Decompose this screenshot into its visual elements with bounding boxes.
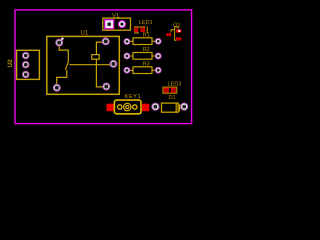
- Q1 pad 3 (emitter): [176, 37, 181, 40]
- U1 pad 3: [110, 60, 117, 67]
- R1 body: [133, 38, 152, 45]
- LED1 silk: [134, 27, 147, 34]
- svg-text:D1: D1: [169, 95, 176, 101]
- transistor Q1: [166, 22, 181, 40]
- KEY1 right contact circle: [133, 105, 137, 109]
- LED2 pad 1: [164, 88, 169, 93]
- LED1 pad 2: [141, 28, 145, 32]
- via marker on Q1 pad 2 (white dot): [178, 30, 180, 32]
- R1 leads: [130, 40, 155, 42]
- resistor R2: [124, 47, 161, 59]
- via marker (white dot): [61, 38, 63, 40]
- R3 pad 1: [124, 67, 130, 73]
- V1 pad 2 (round): [118, 21, 125, 28]
- U2 pad 2: [22, 61, 29, 68]
- R2 body: [133, 53, 152, 60]
- resistor R3: [124, 61, 161, 73]
- KEY1 pad 1: [107, 104, 114, 112]
- U1 pad 2: [102, 38, 109, 45]
- R1 pad 1: [124, 39, 130, 45]
- Q1 silk: [171, 27, 178, 41]
- D1 cathode band: [176, 103, 179, 112]
- D1 pad 1: [152, 103, 159, 110]
- V1 pad 1 (square): [105, 20, 114, 29]
- U2 pad 3: [22, 71, 29, 78]
- silk: switch arm diagonal: [65, 62, 68, 70]
- U1 pad 4: [53, 84, 60, 91]
- Q1 pad 2 (collector): [176, 29, 181, 32]
- U1 pad 5: [103, 83, 110, 90]
- KEY1 button circles: [124, 103, 131, 110]
- U1 outline: [47, 36, 120, 94]
- crystal V1: [103, 13, 131, 30]
- R2 pad 1: [124, 53, 130, 59]
- Q1 pad 1 (base): [166, 33, 171, 36]
- silk: path to bottom-left pad: [57, 70, 67, 84]
- R2 leads: [130, 55, 155, 57]
- silk: pole lead from pad 1: [59, 46, 68, 63]
- LED1: [134, 20, 153, 33]
- svg-text:U2: U2: [7, 59, 14, 68]
- R3 leads: [130, 69, 155, 71]
- U2 pad 1: [22, 52, 29, 59]
- KEY1 pad 2: [142, 104, 149, 112]
- silk: contact line to middle pad: [69, 64, 110, 66]
- U2 outline: [17, 50, 40, 79]
- svg-text:LED1: LED1: [139, 20, 153, 26]
- svg-text:U1: U1: [81, 31, 89, 37]
- R2 pad 2: [155, 53, 161, 59]
- LED1 pad 1: [134, 28, 138, 32]
- svg-text:V1: V1: [112, 13, 120, 19]
- board outline (keepout border): [15, 10, 192, 124]
- connector U2: [7, 50, 39, 79]
- R3 pad 2: [155, 67, 161, 73]
- LED2: [163, 82, 182, 94]
- silk: coil top lead: [96, 42, 102, 55]
- silk: coil bottom lead: [96, 59, 102, 87]
- coil rectangle: [92, 55, 99, 60]
- R3 body: [133, 67, 152, 74]
- diode D1: [152, 95, 188, 112]
- LED2 pad 2: [171, 88, 176, 93]
- V1 outline: [103, 18, 131, 30]
- resistor R1: [124, 33, 161, 45]
- pushbutton KEY1: [107, 94, 150, 114]
- KEY1 outline: [114, 100, 141, 114]
- D1 body: [162, 103, 179, 112]
- LED2 silk: [163, 87, 177, 93]
- D1 pad 2: [181, 103, 188, 110]
- KEY1 left contact circle: [118, 105, 122, 109]
- R1 pad 2: [155, 38, 161, 44]
- U1 pad 1: [56, 39, 63, 46]
- relay U1: [47, 31, 120, 95]
